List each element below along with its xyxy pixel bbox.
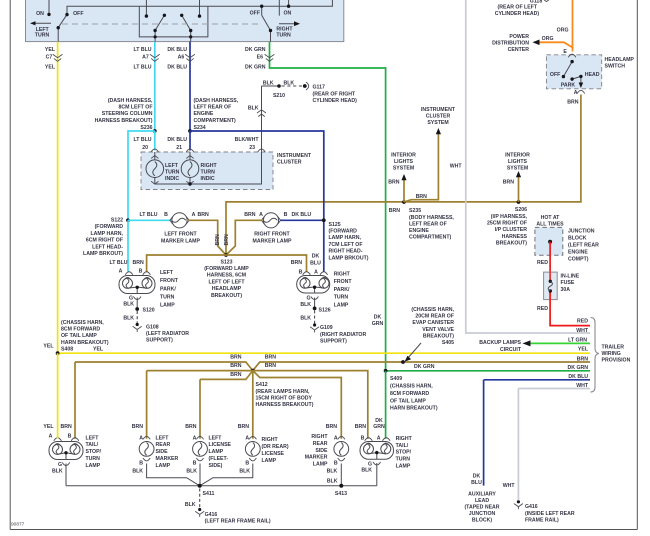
- svg-text:BRN: BRN: [265, 363, 276, 369]
- svg-text:TURN: TURN: [276, 33, 291, 39]
- svg-text:CLUSTER: CLUSTER: [426, 114, 451, 120]
- svg-text:90877: 90877: [11, 522, 25, 528]
- svg-text:YEL: YEL: [43, 424, 54, 430]
- svg-text:MARKER LAMP: MARKER LAMP: [161, 238, 200, 244]
- svg-text:LEAD: LEAD: [475, 498, 489, 504]
- svg-text:LEFT: LEFT: [156, 435, 170, 441]
- svg-text:TAIL/: TAIL/: [396, 443, 409, 449]
- svg-text:LAMP: LAMP: [156, 463, 171, 469]
- svg-text:BRN: BRN: [61, 424, 72, 430]
- svg-text:RIGHT FRONT: RIGHT FRONT: [254, 232, 290, 238]
- svg-text:BRN: BRN: [265, 355, 276, 361]
- svg-text:TURN: TURN: [160, 294, 175, 300]
- svg-text:MARKER LAMP: MARKER LAMP: [253, 238, 292, 244]
- svg-text:YEL: YEL: [43, 344, 54, 350]
- svg-text:SYSTEM: SYSTEM: [427, 120, 448, 126]
- svg-text:RIGHT HEAD-: RIGHT HEAD-: [329, 249, 363, 255]
- svg-text:BLK: BLK: [361, 467, 372, 473]
- svg-text:CIRCUIT: CIRCUIT: [500, 347, 522, 353]
- svg-text:DK GRN: DK GRN: [414, 364, 435, 370]
- svg-text:BRN: BRN: [133, 260, 144, 266]
- svg-text:LEFT: LEFT: [86, 435, 100, 441]
- svg-text:LT BLU: LT BLU: [109, 260, 127, 266]
- svg-text:LAMP HARN,: LAMP HARN,: [329, 235, 362, 241]
- svg-text:(LEFT RADIATOR: (LEFT RADIATOR: [146, 331, 189, 337]
- svg-text:RIGHT: RIGHT: [396, 436, 413, 442]
- svg-text:ENGINE: ENGINE: [409, 228, 429, 234]
- svg-text:JUNCTION: JUNCTION: [568, 229, 595, 235]
- svg-text:INSTRUMENT: INSTRUMENT: [277, 153, 312, 159]
- svg-text:B: B: [139, 461, 143, 467]
- svg-text:OFF: OFF: [550, 72, 560, 78]
- svg-text:A: A: [49, 433, 53, 439]
- svg-text:ON: ON: [284, 11, 292, 17]
- svg-text:(RIGHT RADIATOR: (RIGHT RADIATOR: [320, 332, 366, 338]
- svg-text:HEADLAMP: HEADLAMP: [212, 286, 242, 292]
- svg-text:B: B: [245, 461, 249, 467]
- svg-text:8CM FORWARD: 8CM FORWARD: [61, 327, 100, 333]
- svg-text:GRN: GRN: [373, 424, 385, 430]
- svg-text:(CHASSIS HARN,: (CHASSIS HARN,: [61, 320, 104, 326]
- svg-text:B: B: [361, 435, 365, 441]
- svg-text:LT BLU: LT BLU: [133, 47, 151, 53]
- svg-text:WIRING: WIRING: [602, 351, 621, 357]
- svg-text:A: A: [193, 435, 197, 441]
- svg-text:HEADLAMP: HEADLAMP: [605, 57, 635, 63]
- svg-text:EVAP CANISTER: EVAP CANISTER: [412, 320, 454, 326]
- svg-text:TRAILER: TRAILER: [602, 344, 625, 350]
- svg-text:LAMP: LAMP: [86, 463, 101, 469]
- svg-text:WHT: WHT: [576, 383, 589, 389]
- svg-text:GRN: GRN: [372, 321, 384, 327]
- svg-text:BRN: BRN: [326, 424, 337, 430]
- svg-text:S408: S408: [61, 346, 73, 352]
- svg-text:FRAME RAIL): FRAME RAIL): [525, 518, 559, 524]
- svg-text:DK: DK: [312, 254, 320, 260]
- svg-text:TURN: TURN: [165, 170, 180, 176]
- svg-text:BLK: BLK: [132, 469, 143, 475]
- svg-text:LAMP: LAMP: [334, 302, 349, 308]
- svg-text:AUXILIARY: AUXILIARY: [468, 491, 496, 497]
- svg-text:LT BLU: LT BLU: [133, 137, 151, 143]
- svg-text:15CM RIGHT OF BODY: 15CM RIGHT OF BODY: [256, 396, 313, 402]
- svg-text:ORG: ORG: [557, 28, 569, 34]
- svg-text:LT GRN: LT GRN: [568, 338, 587, 344]
- svg-text:COMPT): COMPT): [568, 256, 589, 262]
- svg-text:RED: RED: [577, 318, 588, 324]
- svg-text:BLU: BLU: [310, 260, 321, 266]
- svg-text:HARNESS BREAKOUT): HARNESS BREAKOUT): [95, 118, 153, 124]
- svg-text:REAR: REAR: [313, 441, 328, 447]
- svg-text:G117: G117: [313, 85, 326, 91]
- svg-text:POWER: POWER: [509, 34, 529, 40]
- svg-text:BLOCK: BLOCK: [568, 236, 587, 242]
- svg-text:BLK: BLK: [300, 316, 311, 322]
- svg-text:DK GRN: DK GRN: [245, 47, 266, 53]
- svg-text:PROVISION: PROVISION: [602, 358, 631, 364]
- svg-text:(CHASSIS HARN,: (CHASSIS HARN,: [411, 307, 454, 313]
- svg-text:ON: ON: [36, 11, 44, 17]
- svg-text:BRN: BRN: [224, 234, 230, 245]
- svg-text:A: A: [119, 269, 123, 275]
- svg-text:HOT AT: HOT AT: [541, 215, 561, 221]
- svg-text:S409: S409: [390, 376, 402, 382]
- svg-text:SUPPORT): SUPPORT): [320, 339, 347, 345]
- svg-text:BRN: BRN: [567, 99, 578, 105]
- svg-text:INDIC: INDIC: [165, 176, 179, 182]
- svg-text:B: B: [193, 461, 197, 467]
- svg-text:SYSTEM: SYSTEM: [507, 165, 528, 171]
- svg-text:PARK/: PARK/: [160, 286, 176, 292]
- svg-text:LIGHTS: LIGHTS: [508, 159, 528, 165]
- svg-text:BLK: BLK: [284, 81, 295, 87]
- svg-text:(REAR OF LEFT: (REAR OF LEFT: [498, 4, 538, 10]
- svg-text:COMPARTMENT): COMPARTMENT): [194, 118, 237, 124]
- svg-text:(I/P HARNESS,: (I/P HARNESS,: [491, 214, 528, 220]
- svg-text:YEL: YEL: [578, 347, 589, 353]
- svg-text:BLK: BLK: [185, 502, 196, 508]
- svg-text:ENGINE: ENGINE: [194, 111, 214, 117]
- svg-text:BLK: BLK: [186, 469, 197, 475]
- svg-text:LEFT: LEFT: [165, 163, 179, 169]
- svg-text:LAMP: LAMP: [396, 464, 411, 470]
- svg-text:B: B: [164, 212, 168, 218]
- svg-text:LIGHTS: LIGHTS: [394, 159, 414, 165]
- svg-text:S234: S234: [194, 125, 206, 131]
- svg-text:B: B: [334, 461, 338, 467]
- svg-text:G108: G108: [146, 324, 159, 330]
- svg-text:DK: DK: [473, 474, 481, 480]
- svg-text:I/P CLUSTER: I/P CLUSTER: [495, 227, 527, 233]
- svg-text:FRONT: FRONT: [334, 279, 353, 285]
- svg-text:BRN: BRN: [244, 212, 255, 218]
- svg-text:BLK: BLK: [248, 106, 259, 112]
- svg-text:(BODY HARNESS,: (BODY HARNESS,: [409, 215, 454, 221]
- svg-text:COMPARTMENT): COMPARTMENT): [409, 235, 452, 241]
- svg-text:E6: E6: [257, 54, 263, 60]
- svg-text:TURN: TURN: [35, 33, 50, 39]
- svg-text:LT BLU: LT BLU: [139, 212, 157, 218]
- svg-text:BLK: BLK: [123, 302, 134, 308]
- svg-text:G: G: [58, 462, 62, 468]
- svg-text:RED: RED: [537, 306, 548, 312]
- svg-text:30A: 30A: [561, 287, 571, 293]
- svg-text:OF TAIL LAMP: OF TAIL LAMP: [61, 333, 97, 339]
- svg-text:DK: DK: [375, 418, 383, 424]
- svg-text:S413: S413: [335, 491, 347, 497]
- svg-text:YEL: YEL: [45, 65, 56, 71]
- svg-text:A: A: [259, 212, 263, 218]
- svg-text:BLOCK): BLOCK): [472, 517, 492, 523]
- svg-text:STEERING COLUMN: STEERING COLUMN: [102, 111, 153, 117]
- svg-text:S123: S123: [220, 259, 232, 265]
- svg-text:ORG: ORG: [542, 36, 554, 42]
- svg-text:WHT: WHT: [576, 328, 589, 334]
- svg-text:A: A: [574, 90, 578, 96]
- svg-text:TAIL/: TAIL/: [86, 442, 99, 448]
- svg-text:HARNESS BREAKOUT): HARNESS BREAKOUT): [256, 402, 314, 408]
- svg-text:B: B: [299, 270, 303, 276]
- svg-text:INSTRUMENT: INSTRUMENT: [421, 107, 456, 113]
- svg-text:SIDE): SIDE): [209, 463, 223, 469]
- svg-text:LICENSE: LICENSE: [262, 451, 285, 457]
- svg-text:DK: DK: [374, 315, 382, 321]
- svg-text:SYSTEM: SYSTEM: [393, 165, 414, 171]
- svg-text:RIGHT: RIGHT: [334, 272, 351, 278]
- svg-text:B: B: [139, 269, 143, 275]
- svg-text:LAMP: LAMP: [313, 461, 328, 467]
- svg-text:BLU: BLU: [471, 480, 482, 486]
- svg-text:G109: G109: [320, 325, 333, 331]
- svg-text:LICENSE: LICENSE: [209, 442, 232, 448]
- svg-text:TURN: TURN: [201, 170, 216, 176]
- svg-text:JUNCTION: JUNCTION: [469, 511, 496, 517]
- svg-text:MARKER: MARKER: [156, 456, 179, 462]
- svg-text:A: A: [139, 435, 143, 441]
- svg-text:G416: G416: [525, 504, 538, 510]
- svg-text:S405: S405: [442, 340, 454, 346]
- svg-text:LEFT OF LEFT: LEFT OF LEFT: [208, 279, 245, 285]
- svg-text:BRN: BRN: [230, 363, 241, 369]
- svg-text:21: 21: [176, 145, 182, 151]
- svg-text:DK BLU: DK BLU: [167, 137, 187, 143]
- svg-text:BREAKOUT): BREAKOUT): [423, 333, 454, 339]
- svg-text:S120: S120: [143, 308, 155, 314]
- svg-text:LAMP HARN,: LAMP HARN,: [91, 231, 124, 237]
- svg-text:A: A: [377, 435, 381, 441]
- svg-text:SWITCH: SWITCH: [605, 64, 626, 70]
- svg-text:LEFT: LEFT: [209, 435, 223, 441]
- svg-text:20: 20: [142, 145, 148, 151]
- svg-text:C7: C7: [46, 54, 53, 60]
- svg-text:BRN: BRN: [577, 357, 588, 363]
- svg-text:(CHASSIS HARN,: (CHASSIS HARN,: [390, 384, 433, 390]
- svg-text:TURN: TURN: [396, 457, 411, 463]
- svg-text:BLK: BLK: [327, 479, 338, 485]
- svg-text:7CM LEFT OF: 7CM LEFT OF: [329, 242, 363, 248]
- svg-text:RED: RED: [537, 260, 548, 266]
- svg-text:S126: S126: [319, 308, 331, 314]
- svg-text:A6: A6: [178, 54, 185, 60]
- svg-text:S125: S125: [329, 222, 341, 228]
- svg-text:LEFT: LEFT: [160, 270, 174, 276]
- svg-text:BRN: BRN: [132, 424, 143, 430]
- svg-text:(REAR OF RIGHT: (REAR OF RIGHT: [313, 91, 356, 97]
- svg-text:HARNESS, 6CM: HARNESS, 6CM: [207, 273, 246, 279]
- svg-text:(TAPED NEAR: (TAPED NEAR: [464, 504, 499, 510]
- svg-text:HARN BREAKOUT): HARN BREAKOUT): [390, 406, 438, 412]
- svg-text:BACKUP LAMPS: BACKUP LAMPS: [479, 340, 521, 346]
- svg-text:OF TAIL LAMP: OF TAIL LAMP: [390, 398, 426, 404]
- svg-text:BRN: BRN: [503, 180, 514, 186]
- svg-text:S235: S235: [409, 208, 421, 214]
- svg-text:STOP/: STOP/: [86, 449, 102, 455]
- svg-text:S411: S411: [203, 491, 215, 497]
- svg-text:MARKER: MARKER: [305, 455, 328, 461]
- svg-text:S122: S122: [111, 218, 123, 224]
- svg-text:CENTER: CENTER: [508, 47, 530, 53]
- svg-text:BLK/WHT: BLK/WHT: [235, 137, 260, 143]
- svg-text:(INSIDE LEFT REAR: (INSIDE LEFT REAR: [525, 511, 575, 517]
- svg-text:DISTRIBUTION: DISTRIBUTION: [492, 40, 529, 46]
- svg-text:LEFT FRONT: LEFT FRONT: [164, 232, 197, 238]
- svg-text:S206: S206: [515, 207, 527, 213]
- svg-text:DK GRN: DK GRN: [568, 365, 589, 371]
- svg-text:6CM RIGHT OF: 6CM RIGHT OF: [86, 238, 123, 244]
- svg-text:DK BLU: DK BLU: [568, 374, 588, 380]
- svg-text:HARNESS: HARNESS: [502, 234, 528, 240]
- svg-text:LEFT HEAD-: LEFT HEAD-: [92, 244, 123, 250]
- svg-text:(DR REAR): (DR REAR): [262, 444, 289, 450]
- svg-text:LAMP: LAMP: [160, 303, 175, 309]
- svg-text:LAMP BRKOUT): LAMP BRKOUT): [83, 251, 123, 257]
- svg-text:BRN: BRN: [355, 424, 366, 430]
- svg-text:HARN BREAKOUT): HARN BREAKOUT): [61, 340, 109, 346]
- svg-text:G: G: [306, 296, 310, 302]
- svg-text:ENGINE: ENGINE: [568, 249, 588, 255]
- svg-text:BLK: BLK: [327, 469, 338, 475]
- svg-text:YEL: YEL: [45, 47, 56, 53]
- svg-text:RIGHT: RIGHT: [262, 437, 279, 443]
- svg-text:HEAD: HEAD: [585, 72, 600, 78]
- svg-text:REAR: REAR: [156, 442, 171, 448]
- svg-text:B: B: [68, 433, 72, 439]
- svg-text:LEFT REAR OF: LEFT REAR OF: [194, 105, 232, 111]
- svg-text:25CM RIGHT OF: 25CM RIGHT OF: [487, 221, 527, 227]
- svg-text:A: A: [334, 435, 338, 441]
- svg-text:OFF: OFF: [73, 11, 83, 17]
- svg-text:BRN: BRN: [416, 194, 427, 200]
- svg-text:BRN: BRN: [238, 424, 249, 430]
- svg-text:DK BLU: DK BLU: [292, 212, 312, 218]
- svg-text:LEFT REAR OF: LEFT REAR OF: [409, 221, 447, 227]
- svg-text:CYLINDER HEAD): CYLINDER HEAD): [313, 98, 358, 104]
- svg-text:WHT: WHT: [450, 164, 463, 170]
- svg-text:B: B: [284, 212, 288, 218]
- svg-text:INTERIOR: INTERIOR: [505, 153, 530, 159]
- svg-text:BRN: BRN: [185, 424, 196, 430]
- svg-text:(DASH HARNESS,: (DASH HARNESS,: [108, 98, 153, 104]
- svg-text:(DASH HARNESS,: (DASH HARNESS,: [194, 98, 239, 104]
- svg-text:S210: S210: [273, 93, 285, 99]
- svg-text:BLK: BLK: [239, 469, 250, 475]
- svg-text:LAMP: LAMP: [209, 449, 224, 455]
- svg-text:INDIC: INDIC: [201, 176, 215, 182]
- svg-text:(REAR LAMPS HARN,: (REAR LAMPS HARN,: [256, 389, 310, 395]
- svg-text:TURN: TURN: [334, 295, 349, 301]
- svg-text:DK BLU: DK BLU: [167, 47, 187, 53]
- svg-text:(FORWARD: (FORWARD: [329, 229, 358, 235]
- svg-text:SIDE: SIDE: [156, 449, 169, 455]
- svg-text:DK GRN: DK GRN: [245, 65, 266, 71]
- svg-text:A7: A7: [142, 54, 149, 60]
- svg-text:G416: G416: [205, 512, 218, 518]
- svg-text:YEL: YEL: [93, 346, 104, 352]
- svg-text:BRN: BRN: [230, 355, 241, 361]
- svg-text:DK BLU: DK BLU: [167, 65, 187, 71]
- svg-text:BRN: BRN: [215, 234, 221, 245]
- svg-text:PARK: PARK: [561, 82, 576, 88]
- svg-text:23: 23: [249, 145, 255, 151]
- svg-text:E: E: [563, 49, 567, 55]
- svg-text:PARK/: PARK/: [334, 287, 350, 293]
- svg-text:8CM LEFT OF: 8CM LEFT OF: [118, 105, 152, 111]
- svg-text:BLK: BLK: [123, 316, 134, 322]
- svg-text:BREAKOUT): BREAKOUT): [496, 241, 527, 247]
- svg-text:(LEFT REAR: (LEFT REAR: [568, 243, 599, 249]
- svg-text:CLUSTER: CLUSTER: [277, 160, 302, 166]
- svg-text:(FLEET-: (FLEET-: [209, 456, 229, 462]
- svg-text:20CM REAR OF: 20CM REAR OF: [415, 314, 454, 320]
- svg-text:SIDE: SIDE: [315, 448, 328, 454]
- svg-text:SUPPORT): SUPPORT): [146, 338, 173, 344]
- svg-text:BREAKOUT): BREAKOUT): [211, 293, 242, 299]
- svg-text:BRN: BRN: [388, 180, 399, 186]
- svg-text:LAMP BRKOUT): LAMP BRKOUT): [329, 255, 369, 261]
- svg-text:BLK: BLK: [52, 469, 63, 475]
- svg-text:VENT VALVE: VENT VALVE: [422, 327, 454, 333]
- svg-text:S412: S412: [256, 382, 268, 388]
- svg-text:OFF: OFF: [250, 11, 260, 17]
- svg-text:BRN: BRN: [389, 208, 400, 214]
- svg-text:LAMP: LAMP: [262, 458, 277, 464]
- svg-text:LT BLU: LT BLU: [133, 65, 151, 71]
- svg-text:WHT: WHT: [503, 483, 516, 489]
- svg-text:IN-LINE: IN-LINE: [561, 273, 580, 279]
- svg-text:S236: S236: [140, 125, 152, 131]
- svg-text:BLK: BLK: [263, 81, 274, 87]
- svg-text:RIGHT: RIGHT: [201, 163, 218, 169]
- svg-text:RIGHT: RIGHT: [311, 434, 328, 440]
- svg-text:BLK: BLK: [300, 302, 311, 308]
- svg-text:INTERIOR: INTERIOR: [391, 153, 416, 159]
- svg-text:(LEFT REAR FRAME RAIL): (LEFT REAR FRAME RAIL): [205, 519, 271, 525]
- svg-text:FUSE: FUSE: [561, 280, 575, 286]
- svg-text:CYLINDER HEAD): CYLINDER HEAD): [495, 11, 540, 17]
- svg-text:ALL TIMES: ALL TIMES: [536, 221, 564, 227]
- svg-text:STOP/: STOP/: [396, 450, 412, 456]
- svg-text:BRN: BRN: [230, 372, 241, 378]
- svg-text:A: A: [192, 212, 196, 218]
- svg-text:(FORWARD LAMP: (FORWARD LAMP: [204, 266, 249, 272]
- svg-text:(FORWARD: (FORWARD: [95, 224, 124, 230]
- svg-text:BRN: BRN: [198, 212, 209, 218]
- svg-text:BRN: BRN: [291, 260, 302, 266]
- svg-text:TURN: TURN: [86, 456, 101, 462]
- svg-text:8CM FORWARD: 8CM FORWARD: [390, 391, 429, 397]
- svg-text:A: A: [245, 435, 249, 441]
- svg-text:A: A: [314, 270, 318, 276]
- svg-text:FRONT: FRONT: [160, 278, 179, 284]
